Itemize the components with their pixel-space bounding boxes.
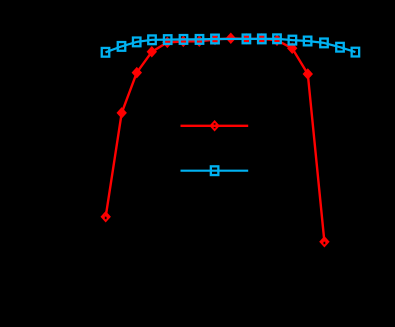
red diamond marker 13 (287, 43, 297, 55)
cyan square marker 2 (118, 42, 126, 51)
cyan square marker 3 (133, 38, 141, 47)
cyan square marker 11 (273, 34, 281, 43)
red diamond marker 15 (319, 236, 329, 248)
cyan square marker 14 (320, 39, 328, 48)
legend cyan square (211, 166, 219, 175)
cyan square marker 4 (148, 35, 156, 44)
red diamond marker 5 (162, 37, 172, 49)
cyan square marker 16 (352, 48, 360, 57)
red diamond marker 11 (257, 33, 267, 45)
red diamond marker 6 (178, 36, 188, 48)
red series polyline (106, 38, 325, 241)
cyan square marker 7 (196, 35, 204, 44)
red diamond marker 12 (272, 35, 282, 47)
legend red sample line (181, 125, 249, 127)
cyan square marker 1 (102, 48, 110, 57)
red diamond marker 9 (226, 33, 236, 45)
cyan square marker 15 (336, 43, 344, 52)
cyan square marker 12 (289, 36, 297, 45)
cyan square marker 5 (164, 35, 172, 44)
red diamond marker 1 (101, 211, 111, 223)
legend red diamond (209, 120, 219, 132)
red diamond marker 8 (210, 34, 220, 46)
cyan square marker 6 (180, 35, 188, 44)
cyan square marker 8 (211, 35, 219, 44)
red diamond marker 2 (117, 107, 127, 119)
red diamond marker 4 (147, 46, 157, 58)
red diamond marker 14 (303, 68, 313, 80)
cyan series polyline (106, 39, 356, 53)
cyan square marker 10 (258, 35, 266, 44)
cyan square marker 9 (243, 35, 251, 44)
cyan square marker 13 (304, 37, 312, 46)
legend cyan sample line (181, 170, 249, 172)
red diamond marker 7 (194, 36, 204, 48)
red diamond marker 10 (241, 33, 251, 45)
red diamond marker 3 (132, 67, 142, 79)
